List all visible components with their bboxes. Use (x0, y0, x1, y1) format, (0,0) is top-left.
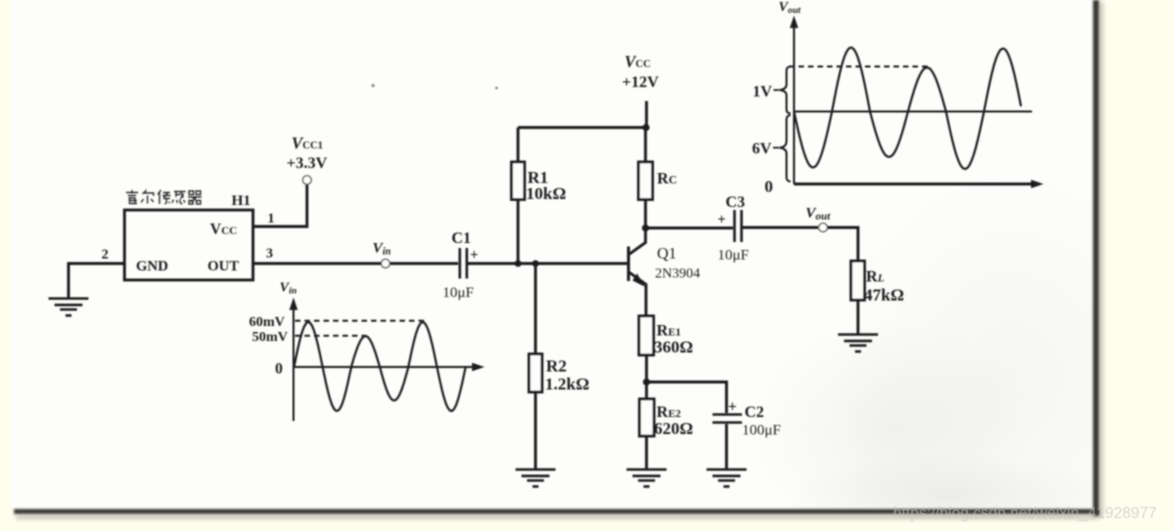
wire C2 to ground (725, 424, 728, 469)
capacitor C2 plates (713, 415, 743, 423)
resistor RE2 body (640, 399, 655, 436)
1V brace (780, 67, 791, 114)
capacitor C3 plates (735, 210, 742, 242)
svg-text:10kΩ: 10kΩ (526, 184, 566, 203)
input graph horizontal axis (294, 366, 478, 368)
junction collector node (642, 224, 649, 231)
output graph vertical axis (793, 24, 795, 184)
resistor Rc body (639, 162, 653, 200)
ground (C2) (707, 470, 747, 487)
svg-text:GND: GND (136, 259, 168, 275)
resistor R2 body (529, 354, 542, 392)
svg-text:RC: RC (657, 171, 677, 188)
dashed peak level line (789, 66, 929, 68)
wire Vout to RL (828, 228, 859, 262)
resistor RE1 body (639, 316, 654, 355)
wire C1 to base node (468, 262, 628, 265)
svg-text:+: + (728, 399, 737, 416)
svg-text:R2: R2 (546, 357, 567, 376)
6V tick (773, 147, 779, 149)
wire collector to C3 (646, 227, 734, 230)
svg-text:0: 0 (275, 361, 283, 378)
svg-text:+12V: +12V (622, 74, 659, 91)
svg-text:10μF: 10μF (718, 248, 749, 264)
hall sensor label 霍尔传感器 (drawn strokes) (126, 190, 202, 204)
svg-text:Vin: Vin (280, 281, 297, 297)
wire pin2 GND to ground (69, 264, 125, 299)
junction R2 base wire (532, 260, 539, 267)
svg-text:+3.3V: +3.3V (287, 155, 328, 172)
svg-text:VCC: VCC (210, 221, 237, 238)
svg-text:50mV: 50mV (252, 330, 288, 345)
wire pin3 OUT to C1 (253, 262, 458, 265)
svg-text:H1: H1 (232, 193, 251, 209)
wire VCC stub (645, 101, 648, 128)
svg-text:1V: 1V (753, 84, 773, 101)
junction VCC rail (642, 124, 649, 131)
input graph vertical axis (293, 305, 295, 421)
speck artifact left (371, 84, 374, 87)
wire top supply rail (518, 126, 647, 129)
svg-text:C1: C1 (452, 230, 472, 247)
wire rail to R1 (517, 128, 520, 163)
resistor RL body (851, 261, 865, 300)
dashed 60mV level line (295, 320, 426, 322)
watermark (893, 505, 1157, 523)
output DC level line (794, 111, 1032, 113)
wire RE1 to RE2 (645, 355, 648, 399)
svg-text:VCC1: VCC1 (292, 134, 323, 153)
ground (hall GND) (49, 299, 89, 316)
svg-text:C2: C2 (745, 404, 765, 421)
page shadow halos (1099, 2, 1103, 517)
svg-text:Vout: Vout (806, 206, 832, 223)
output graph horizontal axis (794, 183, 1036, 186)
svg-text:RL: RL (866, 269, 885, 286)
input waveform graph (249, 281, 485, 422)
svg-text:+: + (470, 248, 478, 264)
node Vin circle (381, 259, 390, 268)
svg-text:6V: 6V (752, 141, 772, 158)
wire Rc to collector (644, 200, 647, 229)
output sine wave (794, 48, 1021, 169)
wire RL to ground (857, 300, 860, 334)
junction emitter divider node (643, 378, 650, 385)
svg-text:1.2kΩ: 1.2kΩ (545, 375, 589, 394)
1V tick (774, 89, 780, 91)
svg-text:1: 1 (268, 212, 275, 227)
capacitor C1 plates (460, 248, 467, 279)
page shadow bottom border (14, 509, 1099, 515)
VCC1 terminal circle (303, 176, 312, 185)
ground (R2) (516, 470, 556, 487)
wire C3 to Vout node (743, 226, 819, 229)
svg-text:0: 0 (765, 177, 774, 196)
input sine wave (294, 322, 466, 411)
svg-text:C3: C3 (726, 194, 746, 211)
svg-text:VCC: VCC (625, 52, 651, 71)
ground (RL) (838, 335, 878, 352)
svg-text:2: 2 (102, 248, 109, 263)
dashed 50mV level line (295, 335, 366, 337)
svg-text:360Ω: 360Ω (654, 338, 693, 357)
wire R2 to ground (534, 392, 537, 469)
svg-text:60mV: 60mV (249, 315, 285, 330)
wire R1 to base node (517, 200, 520, 264)
ground (RE2) (627, 470, 667, 487)
svg-text:2N3904: 2N3904 (655, 267, 700, 282)
svg-text:3: 3 (266, 247, 273, 262)
svg-text:+: + (718, 212, 726, 228)
svg-text:Vout: Vout (779, 0, 801, 16)
svg-text:Vin: Vin (373, 241, 392, 258)
transistor Q1 2N3904 (629, 228, 647, 316)
junction R1 base wire (515, 260, 522, 267)
resistor R1 body (512, 162, 525, 200)
hall sensor U-H1 box (125, 210, 254, 280)
page shadow right border (1093, 0, 1099, 516)
svg-text:47kΩ: 47kΩ (864, 286, 904, 305)
wire pin1 to VCC1 terminal (253, 185, 307, 227)
output waveform graph (752, 0, 1044, 196)
wire RE2 to ground (645, 436, 648, 469)
wire node to C2 (647, 382, 727, 413)
svg-text:10μF: 10μF (443, 285, 474, 301)
svg-text:620Ω: 620Ω (654, 419, 693, 438)
6V brace (780, 115, 791, 182)
wire rail to Rc (644, 128, 647, 163)
svg-text:100μF: 100μF (742, 423, 781, 439)
svg-text:OUT: OUT (208, 259, 240, 275)
svg-text:Q1: Q1 (657, 246, 677, 263)
speck artifact right (495, 87, 498, 90)
wire base node to R2 (534, 264, 537, 355)
node Vout circle (819, 223, 828, 232)
